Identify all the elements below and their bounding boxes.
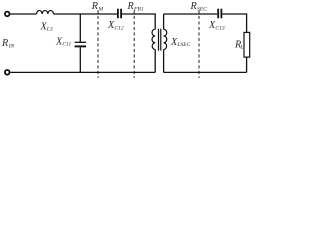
wire to load	[222, 14, 246, 32]
transformer secondary winding	[164, 29, 167, 49]
transformer primary winding	[152, 29, 155, 49]
terminal bottom-left	[5, 70, 10, 75]
resistor RL	[244, 32, 250, 57]
wire top-left	[10, 13, 36, 15]
wire top middle	[54, 13, 118, 15]
dashed reference line RM	[97, 10, 99, 78]
secondary top wire	[164, 13, 218, 15]
capacitor XC12	[117, 9, 119, 19]
capacitor XC13	[217, 9, 219, 19]
node junction to C11	[79, 14, 81, 42]
wire from C12 to primary corner	[122, 14, 155, 29]
bottom wire right	[164, 71, 247, 73]
bottom wire left	[10, 71, 155, 73]
dashed reference line RFB1	[133, 10, 135, 78]
inductor XL3	[37, 10, 54, 14]
transformer core	[158, 29, 160, 51]
capacitor XC11	[75, 41, 87, 43]
dashed reference line RSEC	[198, 10, 200, 78]
terminal top-left	[5, 12, 10, 17]
